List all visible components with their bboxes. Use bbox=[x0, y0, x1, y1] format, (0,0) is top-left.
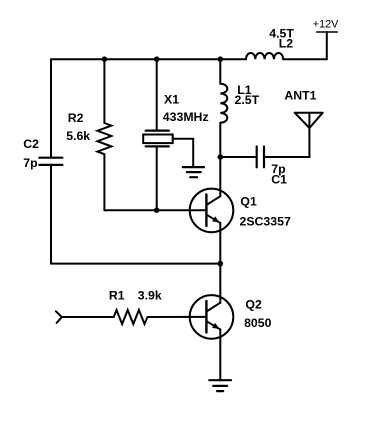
node on top rail at R2 bbox=[102, 56, 108, 62]
wire X1 bottom down to base net bbox=[156, 146, 158, 210]
transistor Q1 bbox=[190, 189, 234, 233]
svg-text:8050: 8050 bbox=[244, 316, 272, 330]
wire C1 to antenna bbox=[264, 128, 309, 157]
wire X1 branch from top rail bbox=[156, 59, 158, 130]
node on top rail at L1 bbox=[218, 56, 224, 62]
wire R2 bottom down bbox=[103, 154, 105, 210]
ground (X1 case) bbox=[183, 167, 204, 177]
svg-text:X1: X1 bbox=[164, 93, 179, 107]
power +12V bbox=[317, 32, 338, 59]
wire L1 bottom to collector node bbox=[219, 123, 221, 157]
svg-text:3.9k: 3.9k bbox=[138, 289, 162, 303]
node on top rail at X1 bbox=[154, 56, 160, 62]
wire X1 case to ground bbox=[173, 139, 194, 167]
svg-text:2.5T: 2.5T bbox=[235, 93, 260, 107]
svg-text:ANT1: ANT1 bbox=[284, 88, 316, 102]
svg-text:R2: R2 bbox=[68, 111, 84, 125]
svg-text:C1: C1 bbox=[271, 172, 287, 186]
svg-text:Q1: Q1 bbox=[240, 194, 257, 208]
wire top rail right segment bbox=[283, 58, 327, 60]
ground (Q2 emitter) bbox=[209, 380, 231, 391]
capacitor C2 bbox=[39, 158, 62, 165]
inductor L1 bbox=[220, 84, 227, 123]
wire base feed to Q1 bbox=[104, 209, 206, 211]
svg-text:5.6k: 5.6k bbox=[66, 129, 90, 143]
node X1/base net bbox=[154, 207, 160, 213]
wire bottom horizontal to emitter node bbox=[51, 263, 220, 265]
svg-text:7p: 7p bbox=[23, 156, 37, 170]
wire Q1 emitter down to node bbox=[219, 223, 221, 264]
input terminal chevron bbox=[56, 311, 62, 323]
wire top rail left segment bbox=[51, 58, 246, 60]
wire collector node to C1 bbox=[220, 156, 255, 158]
capacitor C1 bbox=[257, 147, 264, 168]
svg-text:433MHz: 433MHz bbox=[163, 110, 209, 124]
inductor L2 bbox=[246, 53, 283, 59]
svg-text:C2: C2 bbox=[23, 137, 39, 151]
wire Q2 emitter down to ground bbox=[219, 329, 221, 380]
wire input to R1 bbox=[62, 316, 114, 318]
wire Q1 collector up to node bbox=[219, 157, 221, 196]
svg-text:+12V: +12V bbox=[313, 18, 339, 30]
node emitter/collector bbox=[218, 261, 224, 267]
wire L1 branch from top rail bbox=[219, 59, 221, 83]
wire left rail down to C2 bbox=[50, 59, 52, 158]
svg-text:Q2: Q2 bbox=[245, 298, 262, 312]
svg-text:L2: L2 bbox=[279, 37, 294, 51]
antenna ANT1 bbox=[295, 113, 323, 128]
wire left rail below C2 bbox=[50, 165, 52, 264]
svg-text:2SC3357: 2SC3357 bbox=[240, 215, 291, 229]
node collector/L1/C1 bbox=[218, 154, 224, 160]
crystal X1 bbox=[143, 131, 173, 147]
wire R1 to Q2 base bbox=[148, 316, 207, 318]
svg-text:R1: R1 bbox=[109, 289, 125, 303]
wire emitter node down to Q2 collector bbox=[219, 264, 221, 303]
wire R2 branch from top rail bbox=[103, 59, 105, 123]
resistor R1 bbox=[114, 310, 148, 324]
transistor Q2 bbox=[190, 295, 234, 339]
resistor R2 bbox=[97, 123, 111, 154]
